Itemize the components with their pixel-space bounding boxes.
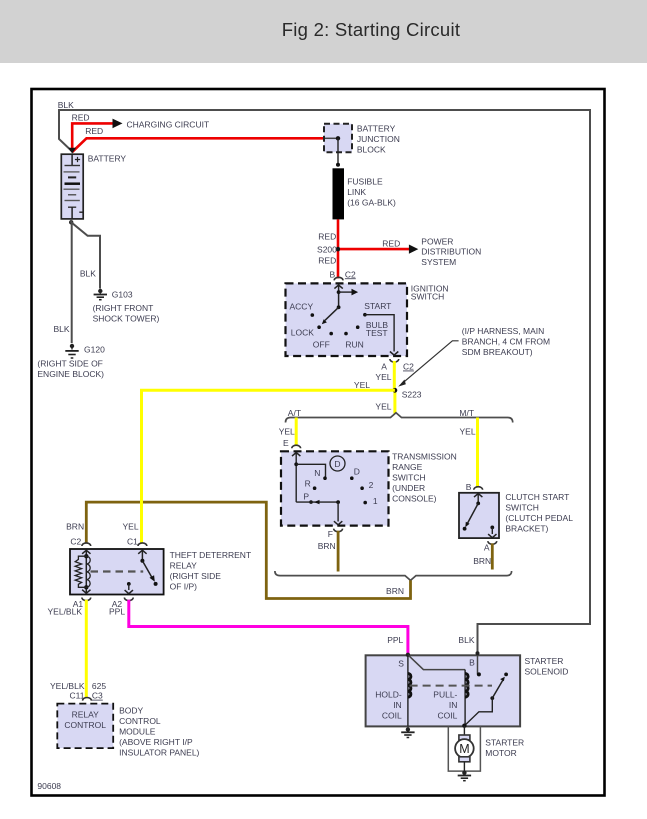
svg-text:RELAY: RELAY — [170, 560, 198, 570]
svg-text:SHOCK TOWER): SHOCK TOWER) — [93, 314, 160, 324]
svg-text:M: M — [459, 742, 469, 756]
svg-text:D: D — [354, 467, 360, 477]
ground starter motor — [458, 771, 471, 781]
svg-text:IN: IN — [449, 700, 458, 710]
svg-text:(16 GA-BLK): (16 GA-BLK) — [347, 198, 396, 208]
wire BRN brace to relay C2 — [66, 502, 410, 598]
title bar — [0, 0, 647, 63]
wire YEL S223 to theft deterrent relay C1 — [123, 380, 395, 546]
svg-text:SWITCH: SWITCH — [505, 503, 539, 513]
wire RED battery to charging circuit — [72, 112, 210, 152]
svg-text:A/T: A/T — [288, 408, 301, 418]
svg-text:(ABOVE RIGHT I/P: (ABOVE RIGHT I/P — [119, 737, 193, 747]
svg-text:INSULATOR PANEL): INSULATOR PANEL) — [119, 748, 199, 758]
svg-text:SOLENOID: SOLENOID — [525, 667, 569, 677]
svg-text:COIL: COIL — [438, 710, 458, 720]
wire RED battery to battery junction block — [68, 126, 325, 154]
svg-text:S200: S200 — [317, 245, 337, 255]
diagram frame — [32, 89, 605, 796]
theft deterrent relay — [70, 543, 251, 609]
transmission range switch — [281, 445, 457, 525]
svg-text:BATTERY: BATTERY — [88, 154, 127, 164]
brace BRN merge — [275, 571, 512, 580]
svg-text:C2: C2 — [403, 362, 414, 372]
svg-text:C1: C1 — [127, 536, 138, 546]
svg-text:N: N — [314, 468, 320, 478]
svg-text:LOCK: LOCK — [291, 328, 314, 338]
svg-text:PPL: PPL — [109, 607, 125, 617]
svg-text:RED: RED — [382, 238, 400, 248]
ignition switch — [286, 277, 449, 356]
ground G120 — [37, 344, 105, 379]
wire YEL S223 to transmission option brace — [375, 392, 394, 414]
wire RED fusible link to ignition switch B — [318, 219, 356, 279]
wire YEL/BLK relay A1 to BCM — [48, 600, 107, 701]
svg-text:SYSTEM: SYSTEM — [421, 257, 456, 267]
svg-text:YEL: YEL — [375, 372, 391, 382]
svg-text:ACCY: ACCY — [290, 302, 314, 312]
svg-text:C2: C2 — [70, 536, 81, 546]
wire YEL ignition A to splice S223 — [375, 359, 414, 390]
svg-text:M/T: M/T — [459, 408, 474, 418]
svg-text:FUSIBLE: FUSIBLE — [347, 177, 383, 187]
svg-text:2: 2 — [369, 480, 374, 490]
svg-text:LINK: LINK — [347, 187, 366, 197]
svg-text:SWITCH: SWITCH — [411, 292, 445, 302]
clutch start switch — [459, 487, 573, 538]
splice S223 — [393, 388, 422, 400]
svg-text:SDM BREAKOUT): SDM BREAKOUT) — [462, 347, 533, 357]
battery junction block — [324, 124, 400, 155]
svg-text:BRACKET): BRACKET) — [505, 524, 548, 534]
svg-text:JUNCTION: JUNCTION — [357, 134, 400, 144]
svg-text:CONTROL: CONTROL — [119, 716, 161, 726]
ground hold-in coil — [401, 727, 414, 737]
svg-text:90608: 90608 — [37, 781, 61, 791]
svg-text:E: E — [283, 438, 289, 448]
svg-text:P: P — [303, 491, 309, 501]
battery B1 — [61, 154, 126, 219]
wire BRN clutch A to brace — [473, 541, 496, 569]
svg-text:MOTOR: MOTOR — [485, 748, 516, 758]
svg-text:RED: RED — [318, 232, 336, 242]
svg-text:BLK: BLK — [80, 268, 96, 278]
svg-text:RED: RED — [318, 255, 336, 265]
svg-text:SWITCH: SWITCH — [392, 472, 426, 482]
svg-text:BRN: BRN — [386, 586, 404, 596]
wire PPL relay A2 to solenoid S — [109, 600, 408, 654]
svg-text:BLOCK: BLOCK — [357, 145, 386, 155]
svg-text:DISTRIBUTION: DISTRIBUTION — [421, 247, 481, 257]
svg-text:POWER: POWER — [421, 237, 453, 247]
svg-text:YEL/BLK: YEL/BLK — [48, 607, 83, 617]
svg-text:MODULE: MODULE — [119, 727, 156, 737]
svg-text:Fig 2: Starting Circuit: Fig 2: Starting Circuit — [282, 19, 460, 40]
svg-text:C2: C2 — [345, 269, 356, 279]
svg-text:YEL/BLK: YEL/BLK — [50, 681, 85, 691]
starter solenoid — [366, 651, 569, 726]
svg-text:RUN: RUN — [345, 339, 363, 349]
wire YEL brace to TRS E — [279, 418, 296, 448]
svg-text:YEL: YEL — [460, 426, 476, 436]
svg-text:OFF: OFF — [313, 339, 330, 349]
svg-text:B: B — [469, 658, 475, 668]
svg-text:START: START — [364, 301, 391, 311]
svg-text:THEFT DETERRENT: THEFT DETERRENT — [170, 550, 252, 560]
svg-text:IN: IN — [393, 700, 402, 710]
wire BLK battery negative to grounds — [54, 219, 100, 343]
svg-text:OF I/P): OF I/P) — [170, 581, 198, 591]
svg-text:S: S — [398, 658, 404, 668]
body control module — [57, 697, 199, 757]
svg-text:BRN: BRN — [66, 522, 84, 532]
svg-text:PPL: PPL — [387, 635, 403, 645]
svg-text:STARTER: STARTER — [525, 656, 564, 666]
svg-text:BODY: BODY — [119, 706, 143, 716]
svg-text:BRN: BRN — [473, 556, 491, 566]
svg-text:PULL-: PULL- — [433, 689, 457, 699]
svg-text:RELAY: RELAY — [72, 710, 100, 720]
fusible link — [333, 138, 397, 219]
svg-text:S223: S223 — [402, 390, 422, 400]
svg-text:B: B — [330, 269, 336, 279]
svg-text:COIL: COIL — [382, 710, 402, 720]
svg-text:YEL: YEL — [354, 380, 370, 390]
svg-text:625: 625 — [92, 681, 106, 691]
svg-text:YEL: YEL — [123, 522, 139, 532]
svg-text:YEL: YEL — [375, 401, 391, 411]
svg-text:RED: RED — [72, 112, 90, 122]
svg-text:(RIGHT SIDE: (RIGHT SIDE — [170, 571, 222, 581]
ground G103 — [93, 289, 160, 324]
svg-text:(RIGHT FRONT: (RIGHT FRONT — [93, 303, 154, 313]
wire BRN TRS F to brace — [318, 529, 343, 572]
svg-text:RANGE: RANGE — [392, 462, 423, 472]
svg-text:R: R — [305, 479, 311, 489]
svg-text:(UNDER: (UNDER — [392, 483, 425, 493]
svg-text:CLUTCH START: CLUTCH START — [505, 492, 569, 502]
starter motor — [448, 724, 524, 773]
svg-text:BLK: BLK — [54, 324, 70, 334]
svg-text:TEST: TEST — [366, 328, 388, 338]
svg-text:RED: RED — [85, 126, 103, 136]
svg-text:G103: G103 — [112, 290, 133, 300]
svg-text:D: D — [334, 459, 340, 469]
wire BLK battery positive to starter solenoid B — [58, 100, 590, 654]
svg-text:F: F — [328, 529, 333, 539]
svg-text:TRANSMISSION: TRANSMISSION — [392, 451, 457, 461]
svg-text:BRANCH, 4 CM FROM: BRANCH, 4 CM FROM — [462, 337, 550, 347]
svg-text:1: 1 — [373, 496, 378, 506]
svg-text:(I/P HARNESS, MAIN: (I/P HARNESS, MAIN — [462, 326, 545, 336]
svg-text:A: A — [484, 543, 490, 553]
svg-text:BLK: BLK — [458, 635, 474, 645]
callout I/P harness note — [398, 326, 550, 387]
svg-text:BLK: BLK — [58, 100, 74, 110]
svg-text:STARTER: STARTER — [485, 738, 524, 748]
svg-text:CONSOLE): CONSOLE) — [392, 493, 437, 503]
svg-text:ENGINE BLOCK): ENGINE BLOCK) — [37, 369, 104, 379]
wire RED S200 to power distribution system — [340, 237, 481, 268]
svg-text:A: A — [381, 362, 387, 372]
wire YEL brace to clutch switch B — [460, 418, 478, 492]
splice S200 — [317, 245, 340, 255]
brace A/T M/T split — [286, 408, 513, 423]
svg-text:HOLD-: HOLD- — [375, 689, 402, 699]
svg-text:C3: C3 — [92, 691, 103, 701]
svg-text:G120: G120 — [84, 345, 105, 355]
svg-text:YEL: YEL — [279, 426, 295, 436]
svg-text:CHARGING CIRCUIT: CHARGING CIRCUIT — [127, 119, 210, 129]
svg-text:CONTROL: CONTROL — [64, 720, 106, 730]
svg-text:(RIGHT SIDE OF: (RIGHT SIDE OF — [37, 359, 103, 369]
svg-text:B: B — [466, 482, 472, 492]
svg-text:BRN: BRN — [318, 541, 336, 551]
svg-text:(CLUTCH PEDAL: (CLUTCH PEDAL — [505, 513, 573, 523]
svg-text:BATTERY: BATTERY — [357, 124, 396, 134]
